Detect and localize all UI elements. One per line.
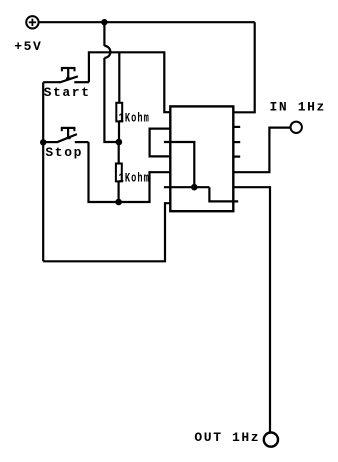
wire left rail from Start down to bottom: [42, 82, 44, 261]
svg-text:Start: Start: [44, 85, 91, 100]
svg-text:1Kohm: 1Kohm: [119, 171, 150, 186]
wire left bracket linking pins 2 and 3: [150, 129, 171, 157]
wire R1 bottom lead: [118, 121, 120, 142]
op-amp U1 IC body: [170, 106, 233, 211]
switch S2 Stop contacts and arm: [43, 134, 88, 142]
wire IN net stub on right side up to IN terminal: [233, 128, 290, 173]
svg-text:1Kohm: 1Kohm: [119, 111, 150, 126]
wire pin 4 stub into IC internal node: [164, 142, 194, 187]
node D internal junction: [191, 184, 198, 191]
switch S2 Stop plunger: [61, 128, 76, 139]
wire R2 top lead: [118, 142, 120, 164]
svg-text:+5V: +5V: [14, 39, 42, 54]
node rail junction: [101, 19, 107, 25]
wire Start output up and across to IC (crossed by hop): [89, 52, 170, 112]
node B junction R2 bottom / Stop wire: [115, 199, 122, 206]
wire internal node horizontal run: [164, 186, 210, 188]
svg-text:Stop: Stop: [45, 145, 83, 160]
svg-text:OUT 1Hz: OUT 1Hz: [194, 430, 260, 445]
wire hop over crossing (no connection): [104, 46, 110, 58]
wire R2 bottom lead: [117, 181, 119, 202]
power terminal +5V: [26, 16, 38, 28]
svg-text:IN 1Hz: IN 1Hz: [270, 100, 326, 115]
resistor R1: [116, 103, 122, 122]
wire +5V drop lower segment to R1/R2 junction: [104, 58, 119, 142]
switch S1 Start contacts and arm: [43, 76, 89, 82]
wire +5V feed on right side of IC: [233, 22, 254, 112]
wire +5V drop upper segment: [103, 22, 105, 46]
wire right pin stub 1: [233, 126, 240, 128]
wire internal step down to bottom right pin: [209, 187, 238, 201]
node A junction R1 bottom / R2 top / +5V: [116, 139, 123, 146]
switch S1 Start plunger: [61, 68, 76, 79]
terminal OUT 1Hz: [264, 433, 278, 447]
node C junction Stop tap on left rail: [40, 139, 46, 145]
terminal IN 1Hz: [291, 122, 302, 133]
wire right pin stub 3: [233, 156, 240, 158]
wire OUT net from IC right edge down to OUT terminal: [233, 187, 270, 432]
resistor R2: [116, 164, 122, 182]
wire R1 top lead from Start wire: [118, 52, 120, 103]
wire Stop output down and right through node B to IC pin: [89, 142, 171, 202]
wire bottom left pin down and around to left rail: [43, 203, 170, 261]
wire top +5V rail: [39, 21, 255, 23]
wire right pin stub 2: [233, 141, 240, 143]
